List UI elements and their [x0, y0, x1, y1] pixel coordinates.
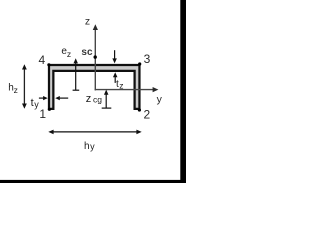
y axis arrowhead: [153, 87, 159, 92]
t_z dimension arrow (up onto flange bottom): [114, 76, 116, 83]
z axis line: [94, 29, 96, 91]
svg-text:z: z: [119, 81, 123, 91]
h_z dimension line with two arrowheads: [23, 68, 25, 106]
z_cg dimension arrow (up to y axis): [105, 93, 107, 108]
y axis line: [95, 89, 154, 91]
node 4 dot: [47, 63, 50, 66]
svg-text:z: z: [67, 49, 71, 59]
svg-text:1: 1: [39, 107, 46, 121]
node 2 dot: [138, 108, 141, 111]
svg-text:sc: sc: [81, 47, 93, 58]
node 3 dot: [138, 62, 141, 65]
svg-text:z: z: [86, 93, 92, 105]
node 1 dot: [48, 108, 51, 111]
shear centre dot sc: [94, 55, 97, 58]
svg-text:4: 4: [39, 53, 46, 67]
svg-text:y: y: [90, 142, 95, 152]
svg-text:cg: cg: [93, 95, 102, 105]
z axis arrowhead: [93, 24, 98, 30]
svg-text:2: 2: [144, 107, 151, 121]
channel section body (U open downward): [49, 65, 139, 109]
e_z dimension arrow: [75, 63, 77, 91]
svg-text:h: h: [84, 141, 90, 152]
t_y dimension arrow (rightward onto leg outer face): [39, 97, 44, 99]
svg-text:y: y: [34, 100, 39, 110]
svg-text:z: z: [85, 15, 90, 27]
svg-text:y: y: [157, 93, 163, 105]
h_y dimension double arrow: [53, 131, 138, 133]
black crop bar right edge: [180, 0, 186, 183]
t_y dimension arrow (leftward onto leg inner face): [60, 97, 69, 99]
svg-text:z: z: [14, 85, 18, 95]
black crop bar bottom edge: [0, 180, 186, 183]
svg-text:3: 3: [144, 52, 151, 66]
t_z dimension arrow (down onto flange top): [114, 50, 116, 59]
